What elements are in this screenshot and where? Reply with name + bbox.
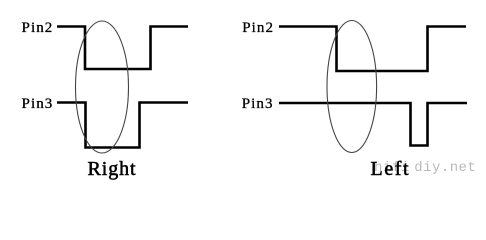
svg-text:Right: Right [88,158,137,180]
svg-text:Pin3: Pin3 [22,96,54,112]
svg-text:Left: Left [371,158,411,180]
svg-text:Pin2: Pin2 [22,20,54,36]
svg-text:diy.net: diy.net [414,160,476,176]
svg-text:Pin2: Pin2 [242,20,274,36]
svg-text:Pin3: Pin3 [242,96,274,112]
